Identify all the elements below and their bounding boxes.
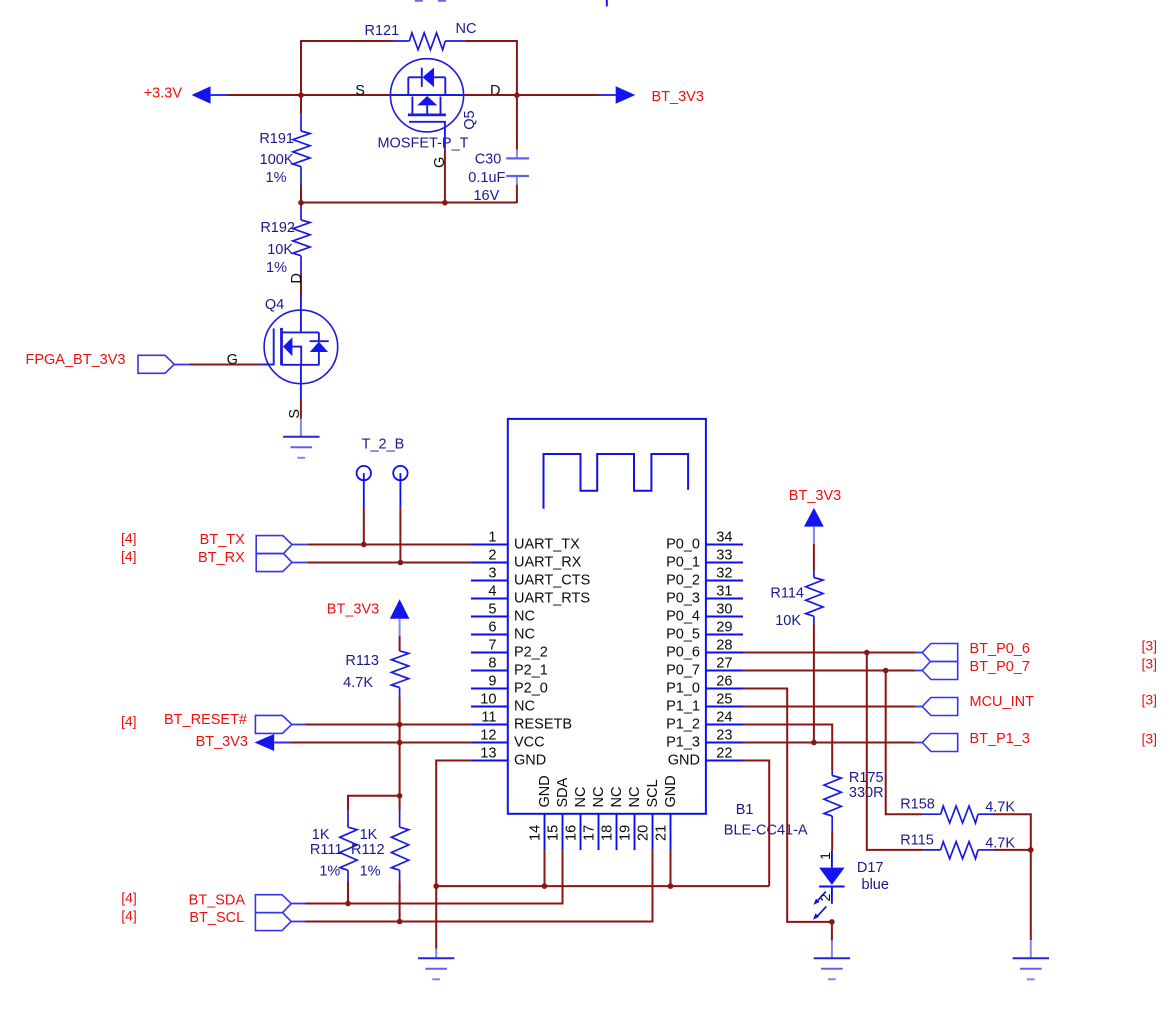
testpoint T_2_B xyxy=(357,436,408,508)
svg-text:SCL: SCL xyxy=(645,779,661,807)
svg-text:100K: 100K xyxy=(260,152,294,168)
svg-text:R115: R115 xyxy=(900,832,934,848)
node junction S side xyxy=(298,92,304,98)
svg-text:R191: R191 xyxy=(259,131,294,147)
svg-text:25: 25 xyxy=(716,692,732,708)
LED D17 xyxy=(813,851,889,920)
ground under Q4 xyxy=(283,437,319,458)
svg-text:SDA: SDA xyxy=(555,777,571,807)
svg-text:NC: NC xyxy=(514,699,535,715)
svg-text:17: 17 xyxy=(582,825,598,841)
svg-text:10K: 10K xyxy=(267,242,293,258)
wire pin23 row xyxy=(743,742,922,744)
wire top cut tick xyxy=(606,0,608,7)
node junction pin28 xyxy=(864,650,870,656)
node junction pin21 rail xyxy=(668,883,674,889)
wire R115 to gnd xyxy=(993,849,1031,851)
svg-text:[4]: [4] xyxy=(121,907,137,923)
svg-text:R114: R114 xyxy=(770,585,804,601)
svg-text:1: 1 xyxy=(488,530,496,546)
node junction D17 cathode xyxy=(829,919,835,925)
wire T_2_B left down xyxy=(363,508,365,545)
svg-text:S: S xyxy=(355,83,365,99)
mosfet Q4 xyxy=(227,294,338,419)
svg-text:GND: GND xyxy=(537,775,553,807)
svg-text:4.7K: 4.7K xyxy=(343,675,373,691)
wire FPGA_BT_3V3 to gate xyxy=(189,364,259,366)
power symbol +3.3V xyxy=(144,85,229,103)
svg-text:3: 3 xyxy=(488,566,496,582)
capacitor C30 xyxy=(468,96,529,204)
svg-text:P0_1: P0_1 xyxy=(666,555,700,571)
svg-text:blue: blue xyxy=(862,877,889,893)
port BT_P1_3 xyxy=(922,731,1157,752)
svg-text:[4]: [4] xyxy=(121,889,137,905)
wire D17 to gnd xyxy=(831,922,833,958)
svg-text:MCU_INT: MCU_INT xyxy=(970,694,1035,710)
svg-text:P0_5: P0_5 xyxy=(666,627,700,643)
svg-text:NC: NC xyxy=(609,787,625,808)
port BT_P0_6 xyxy=(922,638,1157,662)
port BT_SDA xyxy=(121,889,306,912)
svg-text:5: 5 xyxy=(488,602,496,618)
wire vcc vertical xyxy=(399,725,401,796)
svg-text:NC: NC xyxy=(591,787,607,808)
svg-text:MOSFET-P_T: MOSFET-P_T xyxy=(377,135,468,151)
node junction T_2_B pin2 xyxy=(398,560,404,566)
svg-text:29: 29 xyxy=(716,620,732,636)
wire +3.3V to S xyxy=(228,94,391,96)
svg-text:30: 30 xyxy=(716,602,732,618)
node junction R191 bottom xyxy=(298,200,304,206)
svg-text:7: 7 xyxy=(488,638,496,654)
wire R111 branch xyxy=(348,796,400,810)
wire top cut text marks xyxy=(415,0,446,2)
wire top loop right vertical xyxy=(516,41,518,95)
port BT_RX xyxy=(121,548,309,572)
svg-text:R121: R121 xyxy=(365,23,400,39)
svg-text:BT_P0_6: BT_P0_6 xyxy=(970,641,1030,657)
svg-text:28: 28 xyxy=(716,638,732,654)
svg-text:[4]: [4] xyxy=(121,530,137,546)
svg-text:G: G xyxy=(227,352,238,368)
svg-text:UART_CTS: UART_CTS xyxy=(514,573,590,589)
svg-text:24: 24 xyxy=(716,710,732,726)
svg-text:BT_SDA: BT_SDA xyxy=(189,892,246,908)
svg-text:P0_6: P0_6 xyxy=(666,645,700,661)
node junction R115 gnd xyxy=(1028,847,1034,853)
mosfet Q5 xyxy=(355,59,500,168)
svg-text:NC: NC xyxy=(573,787,589,808)
svg-text:1K: 1K xyxy=(360,827,378,843)
wire pin25 row xyxy=(743,706,922,708)
svg-text:15: 15 xyxy=(546,825,562,841)
port FPGA_BT_3V3 xyxy=(26,352,191,373)
power symbol BT_3V3 left arrow xyxy=(196,734,291,751)
node junction pin23 R114 xyxy=(811,740,817,746)
power symbol BT_3V3 above R113 xyxy=(327,599,410,636)
svg-text:18: 18 xyxy=(600,825,616,841)
svg-text:4: 4 xyxy=(488,584,496,600)
svg-text:8: 8 xyxy=(488,656,496,672)
svg-text:[3]: [3] xyxy=(1142,692,1158,708)
wire BT_RESET# to pin11 xyxy=(305,724,472,726)
svg-text:R113: R113 xyxy=(345,653,379,669)
wire pin26 P1_0 xyxy=(743,689,832,922)
svg-text:19: 19 xyxy=(618,825,634,841)
port BT_RESET# xyxy=(121,712,306,734)
svg-text:D17: D17 xyxy=(857,860,884,876)
wire pin28 to R115 xyxy=(867,653,923,850)
svg-text:R111: R111 xyxy=(310,842,343,858)
svg-text:NC: NC xyxy=(627,787,643,808)
port BT_TX xyxy=(121,530,309,554)
svg-text:RESETB: RESETB xyxy=(514,717,572,733)
svg-text:P0_0: P0_0 xyxy=(666,537,700,553)
svg-text:BT_P1_3: BT_P1_3 xyxy=(970,731,1030,747)
node junction R112 scl xyxy=(397,919,403,925)
power symbol BT_3V3 top right xyxy=(599,86,704,105)
svg-text:P0_4: P0_4 xyxy=(666,609,700,625)
svg-text:6: 6 xyxy=(488,620,496,636)
svg-text:UART_RTS: UART_RTS xyxy=(514,591,590,607)
svg-text:[4]: [4] xyxy=(121,548,137,564)
svg-text:P2_1: P2_1 xyxy=(514,663,548,679)
node junction R111 sda xyxy=(345,901,351,907)
port BT_SCL xyxy=(121,907,306,930)
svg-text:[3]: [3] xyxy=(1142,638,1158,654)
power symbol BT_3V3 above R114 xyxy=(789,488,841,544)
ground under D17 xyxy=(814,958,850,979)
svg-text:+3.3V: +3.3V xyxy=(144,85,183,101)
svg-text:FPGA_BT_3V3: FPGA_BT_3V3 xyxy=(26,352,126,368)
svg-text:16: 16 xyxy=(564,825,580,841)
svg-text:P1_0: P1_0 xyxy=(666,681,700,697)
svg-text:BLE-CC41-A: BLE-CC41-A xyxy=(724,823,808,839)
port BT_P0_7 xyxy=(922,656,1157,680)
IC B1 BLE-CC41-A xyxy=(471,419,808,850)
svg-text:BT_3V3: BT_3V3 xyxy=(327,602,379,618)
wire bottom loop xyxy=(301,202,517,204)
svg-text:D: D xyxy=(490,83,500,99)
wire pin20 scl down xyxy=(652,850,654,922)
wire BT_3V3 to pin12 xyxy=(290,742,472,744)
svg-text:Q5: Q5 xyxy=(462,110,478,129)
svg-text:VCC: VCC xyxy=(514,735,545,751)
wire BT_RX to pin2 xyxy=(308,562,472,564)
svg-text:BT_3V3: BT_3V3 xyxy=(196,734,248,750)
wire pin24 to R175 xyxy=(743,725,832,771)
svg-text:13: 13 xyxy=(480,746,496,762)
wire BT_SDA row xyxy=(305,903,563,905)
svg-text:BT_RESET#: BT_RESET# xyxy=(164,712,247,728)
node junction pin27 xyxy=(883,668,889,674)
svg-text:R158: R158 xyxy=(900,796,935,812)
svg-text:10K: 10K xyxy=(775,613,801,629)
svg-text:10: 10 xyxy=(480,692,496,708)
svg-text:Q4: Q4 xyxy=(265,297,284,313)
wire pin27 row xyxy=(743,670,922,672)
svg-text:GND: GND xyxy=(514,753,546,769)
node junction gnd rail left xyxy=(433,883,439,889)
svg-text:BT_TX: BT_TX xyxy=(200,532,245,548)
wire BT_TX to pin1 xyxy=(308,544,472,546)
svg-text:P1_3: P1_3 xyxy=(666,735,700,751)
svg-text:BT_P0_7: BT_P0_7 xyxy=(970,659,1030,675)
svg-text:33: 33 xyxy=(716,548,732,564)
svg-text:R192: R192 xyxy=(260,220,295,236)
svg-text:NC: NC xyxy=(514,627,535,643)
wire ground rail xyxy=(436,885,769,887)
svg-text:UART_RX: UART_RX xyxy=(514,555,582,571)
svg-text:20: 20 xyxy=(636,825,652,841)
wire pin21 down xyxy=(670,850,672,886)
resistor R115 xyxy=(900,832,1015,858)
wire pin13 gnd xyxy=(436,761,472,959)
svg-text:P1_2: P1_2 xyxy=(666,717,700,733)
svg-text:34: 34 xyxy=(716,530,732,546)
svg-text:2: 2 xyxy=(818,894,834,902)
resistor R113 xyxy=(343,636,409,725)
wire Q4 source xyxy=(300,400,302,437)
svg-text:23: 23 xyxy=(716,728,732,744)
svg-text:T_2_B: T_2_B xyxy=(362,436,405,452)
port MCU_INT xyxy=(922,692,1157,716)
svg-text:UART_TX: UART_TX xyxy=(514,537,580,553)
wire pin27 to R158 xyxy=(886,671,923,815)
wire pin22 gnd xyxy=(743,761,769,887)
ground bottom right xyxy=(1013,958,1049,979)
svg-text:NC: NC xyxy=(456,21,477,37)
wire pin15 sda down xyxy=(562,850,564,904)
resistor R111 xyxy=(310,810,357,904)
svg-text:14: 14 xyxy=(528,825,544,841)
svg-text:1K: 1K xyxy=(312,827,330,843)
svg-text:1%: 1% xyxy=(319,863,340,879)
wire BT_SCL row xyxy=(305,921,653,923)
svg-text:1%: 1% xyxy=(266,170,287,186)
svg-text:12: 12 xyxy=(480,728,496,744)
node junction D side xyxy=(514,92,520,98)
resistor R175 xyxy=(824,770,884,851)
svg-text:BT_3V3: BT_3V3 xyxy=(652,89,704,105)
svg-text:2: 2 xyxy=(488,548,496,564)
svg-text:32: 32 xyxy=(716,566,732,582)
svg-text:[4]: [4] xyxy=(121,713,137,729)
svg-text:P0_3: P0_3 xyxy=(666,591,700,607)
svg-text:1: 1 xyxy=(818,852,834,860)
wire gnd right vertical xyxy=(1030,850,1032,958)
wire top loop left vertical xyxy=(300,41,302,95)
wire R158 to corner xyxy=(993,814,1031,850)
svg-text:4.7K: 4.7K xyxy=(985,835,1015,851)
svg-text:BT_3V3: BT_3V3 xyxy=(789,488,841,504)
svg-text:[3]: [3] xyxy=(1142,656,1158,672)
svg-text:P0_7: P0_7 xyxy=(666,663,700,679)
svg-text:31: 31 xyxy=(716,584,732,600)
wire pin28 row xyxy=(743,652,922,654)
wire top loop upper left segment xyxy=(300,40,393,42)
svg-text:1%: 1% xyxy=(266,260,287,276)
svg-text:BT_SCL: BT_SCL xyxy=(189,910,244,926)
svg-text:D: D xyxy=(289,273,305,283)
svg-text:0.1uF: 0.1uF xyxy=(468,170,505,186)
svg-text:1%: 1% xyxy=(360,863,381,879)
wire Q5 gate down xyxy=(444,136,446,203)
node junction R111 branch xyxy=(397,793,403,799)
node junction T_2_B pin1 xyxy=(361,542,367,548)
svg-text:P2_2: P2_2 xyxy=(514,645,548,661)
svg-text:B1: B1 xyxy=(736,802,754,818)
svg-text:27: 27 xyxy=(716,656,732,672)
svg-text:9: 9 xyxy=(488,674,496,690)
svg-text:21: 21 xyxy=(654,825,670,841)
wire D to BT_3V3 xyxy=(463,94,599,96)
svg-text:11: 11 xyxy=(481,710,496,726)
svg-text:GND: GND xyxy=(663,775,679,807)
svg-text:P0_2: P0_2 xyxy=(666,573,700,589)
svg-text:22: 22 xyxy=(716,746,732,762)
svg-text:GND: GND xyxy=(668,753,700,769)
resistor R191 xyxy=(259,96,310,203)
wire pin14 down xyxy=(544,850,546,886)
svg-text:P1_1: P1_1 xyxy=(666,699,700,715)
svg-text:4.7K: 4.7K xyxy=(985,799,1015,815)
wire top loop upper right segment xyxy=(465,40,518,42)
svg-text:R112: R112 xyxy=(351,842,385,858)
svg-text:[3]: [3] xyxy=(1142,731,1158,747)
svg-text:BT_RX: BT_RX xyxy=(198,550,245,566)
ground under pin13 xyxy=(418,958,454,979)
svg-text:C30: C30 xyxy=(475,152,502,168)
resistor R121 xyxy=(365,21,477,50)
resistor R158 xyxy=(900,796,1015,823)
resistor R114 xyxy=(770,544,823,743)
node junction vcc pin12 xyxy=(397,740,403,746)
wire T_2_B right down xyxy=(399,508,401,563)
node junction pin14 rail xyxy=(542,883,548,889)
svg-text:NC: NC xyxy=(514,609,535,625)
svg-text:26: 26 xyxy=(716,674,732,690)
node junction gate bottom xyxy=(442,200,448,206)
resistor R112 xyxy=(351,796,409,922)
node junction R113 pin11 xyxy=(397,722,403,728)
svg-text:P2_0: P2_0 xyxy=(514,681,548,697)
resistor R192 xyxy=(260,203,310,295)
